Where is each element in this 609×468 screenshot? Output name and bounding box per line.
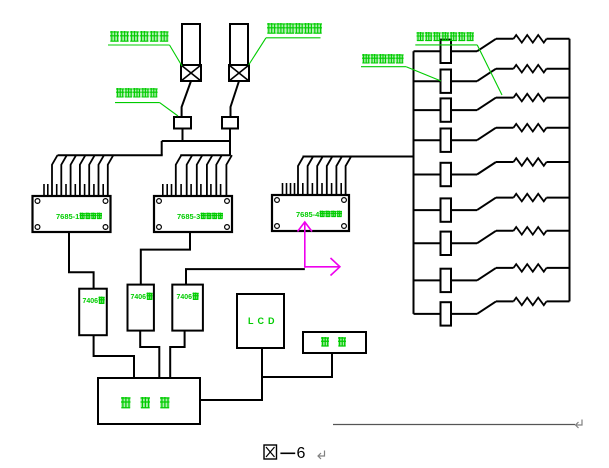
relay row 7: wire resistor to right bus	[547, 230, 570, 232]
relay board 7685-4	[272, 195, 349, 231]
leader to closing coil	[249, 38, 266, 65]
relay row 5: wire relay to diagonal	[451, 174, 477, 176]
resistor R8 zigzag	[514, 264, 547, 272]
relay row 2: wire relay to diagonal	[451, 80, 477, 82]
label keyboard	[321, 337, 329, 346]
relay row 7: wire bus to relay	[414, 242, 441, 244]
relay row 9: wire bus to relay	[414, 313, 441, 315]
relay row 1: wire resistor to right bus	[547, 38, 570, 40]
svg-text:7685-4: 7685-4	[296, 210, 320, 219]
relay row 8: wire bus to relay	[414, 279, 441, 281]
relay row 8: diagonal riser	[477, 268, 496, 281]
relay row 8: wire to resistor	[496, 267, 514, 269]
relay row 9: wire resistor to right bus	[547, 300, 570, 302]
resistor R1 zigzag	[514, 35, 547, 43]
relay row 6: diagonal riser	[477, 198, 496, 211]
label computer 计算机	[121, 397, 131, 408]
relay row 5: wire resistor to right bus	[547, 161, 570, 163]
resistor R2 zigzag	[514, 65, 547, 73]
coil body: HV opening coil	[182, 24, 200, 65]
relay row 9: wire relay to diagonal	[451, 313, 477, 315]
svg-text:7406: 7406	[131, 294, 147, 301]
paragraph mark at line end	[576, 420, 582, 426]
relay row 4: wire bus to relay	[414, 139, 441, 141]
wire board1 to 7406 box1	[69, 232, 94, 289]
svg-text:LCD: LCD	[248, 316, 279, 326]
relay row 4: wire to resistor	[496, 127, 514, 129]
relay row 1: wire bus to relay	[414, 50, 441, 52]
label: HV opening coil 高压分闸线圈	[110, 31, 119, 42]
label: HV closing coil 高压合闸线圈	[267, 23, 276, 34]
relay row 3: wire to resistor	[496, 97, 514, 99]
resistor R4 zigzag	[514, 124, 547, 132]
relay row 5: relay rectangle	[441, 163, 452, 186]
resistor R3 zigzag	[514, 94, 547, 102]
relay row 1: wire relay to diagonal	[451, 50, 477, 52]
wire 7406 box3 up and right to magenta node	[186, 269, 305, 285]
svg-text:6: 6	[297, 445, 306, 462]
relay row 8: wire relay to diagonal	[451, 279, 477, 281]
LCD box	[237, 294, 284, 348]
empty underline line bottom right	[333, 424, 575, 426]
magenta arrow up into board 7685-4	[304, 222, 306, 268]
relay board 7685-1	[33, 196, 111, 232]
relay row 5: wire bus to relay	[414, 174, 441, 176]
relay row 4: wire relay to diagonal	[451, 139, 477, 141]
intermediate relay K1	[174, 117, 191, 129]
relay row 7: wire to resistor	[496, 230, 514, 232]
keyboard box	[303, 332, 366, 353]
relay row 3: wire resistor to right bus	[547, 97, 570, 99]
svg-text:7685-1: 7685-1	[56, 212, 79, 221]
wire: K2 down to board-2 fan bus	[229, 129, 231, 156]
relay row 7: diagonal riser	[477, 231, 496, 244]
relay row 8: relay rectangle	[441, 269, 452, 292]
pins of board 7685-1	[43, 184, 45, 196]
coil body: HV closing coil	[230, 24, 248, 65]
leader to relay K1	[160, 103, 178, 116]
left bus of relay column	[413, 51, 415, 314]
relay row 2: relay rectangle	[441, 70, 452, 93]
relay row 9: relay rectangle	[441, 302, 452, 325]
relay row 2: diagonal riser	[477, 69, 496, 82]
resistor R7 zigzag	[514, 227, 547, 235]
wire: closing coil to relay K2	[231, 81, 240, 117]
leader to opening coil	[170, 45, 183, 66]
wire: opening coil to relay K1	[182, 81, 191, 117]
relay row 4: diagonal riser	[477, 128, 496, 141]
fan bus board 2	[180, 154, 230, 156]
paragraph mark after caption	[319, 451, 325, 457]
relay row 7: wire relay to diagonal	[451, 242, 477, 244]
relay row 5: diagonal riser	[477, 162, 496, 175]
relay row 3: relay rectangle	[441, 98, 452, 121]
wire LCD to computer	[200, 348, 262, 400]
relay row 4: wire resistor to right bus	[547, 127, 570, 129]
7406 box 2	[128, 285, 154, 331]
pins of board 7685-4	[282, 183, 284, 195]
relay row 6: wire to resistor	[496, 197, 514, 199]
relay row 1: diagonal riser	[477, 39, 496, 52]
leader to resistor row 3	[477, 45, 502, 95]
fan bus board 3	[303, 156, 414, 158]
right bus of resistor column	[569, 39, 571, 302]
svg-text:7406: 7406	[83, 298, 99, 305]
wire 7406 box3 to computer	[170, 331, 184, 378]
relay row 8: wire resistor to right bus	[547, 267, 570, 269]
relay row 6: wire resistor to right bus	[547, 197, 570, 199]
relay row 6: relay rectangle	[441, 198, 452, 221]
relay row 2: wire bus to relay	[414, 80, 441, 82]
wire 7406 box2 to computer	[140, 331, 159, 378]
fan bus board 1	[58, 154, 163, 156]
7406 box 1	[79, 289, 107, 336]
intermediate relay K2	[222, 117, 238, 129]
coil X-box: HV closing coil	[229, 65, 249, 81]
bus A step down	[161, 141, 163, 155]
label: resistors 电阻器与触电阻	[417, 32, 425, 41]
resistor R6 zigzag	[514, 194, 547, 202]
relay row 5: wire to resistor	[496, 161, 514, 163]
wire: K1 to bus A	[182, 129, 184, 142]
relay row 1: relay rectangle	[441, 40, 452, 63]
label: intermediate relay (right column) 中间继电器	[362, 54, 370, 63]
coil X-box: HV opening coil	[181, 65, 201, 81]
magenta arrow right	[305, 266, 339, 268]
wire keyboard joins LCD wire	[262, 353, 332, 377]
relay row 2: wire resistor to right bus	[547, 68, 570, 70]
relay row 3: diagonal riser	[477, 98, 496, 111]
leader to column relay 2	[406, 67, 441, 81]
relay row 2: wire to resistor	[496, 68, 514, 70]
relay row 4: relay rectangle	[441, 129, 452, 152]
relay row 6: wire bus to relay	[414, 209, 441, 211]
wire 7406 box1 to computer	[94, 335, 134, 378]
relay row 3: wire relay to diagonal	[451, 109, 477, 111]
svg-text:7406: 7406	[177, 294, 193, 301]
relay row 7: relay rectangle	[441, 232, 452, 255]
caption 图—6	[264, 445, 277, 459]
relay board 7685-3	[154, 196, 232, 232]
7406 box 3	[172, 285, 203, 331]
pins of board 7685-3	[162, 184, 164, 196]
relay row 6: wire relay to diagonal	[451, 209, 477, 211]
label: intermediate relay (left) 中间继电器	[116, 88, 124, 97]
relay row 9: wire to resistor	[496, 300, 514, 302]
relay row 1: wire to resistor	[496, 38, 514, 40]
svg-text:7685-3: 7685-3	[177, 212, 200, 221]
bus A horizontal	[162, 140, 230, 142]
resistor R9 zigzag	[514, 298, 547, 306]
relay row 3: wire bus to relay	[414, 109, 441, 111]
relay row 9: diagonal riser	[477, 301, 496, 314]
computer box	[98, 378, 200, 424]
resistor R5 zigzag	[514, 158, 547, 166]
wire board2 to 7406 box2	[141, 232, 190, 285]
